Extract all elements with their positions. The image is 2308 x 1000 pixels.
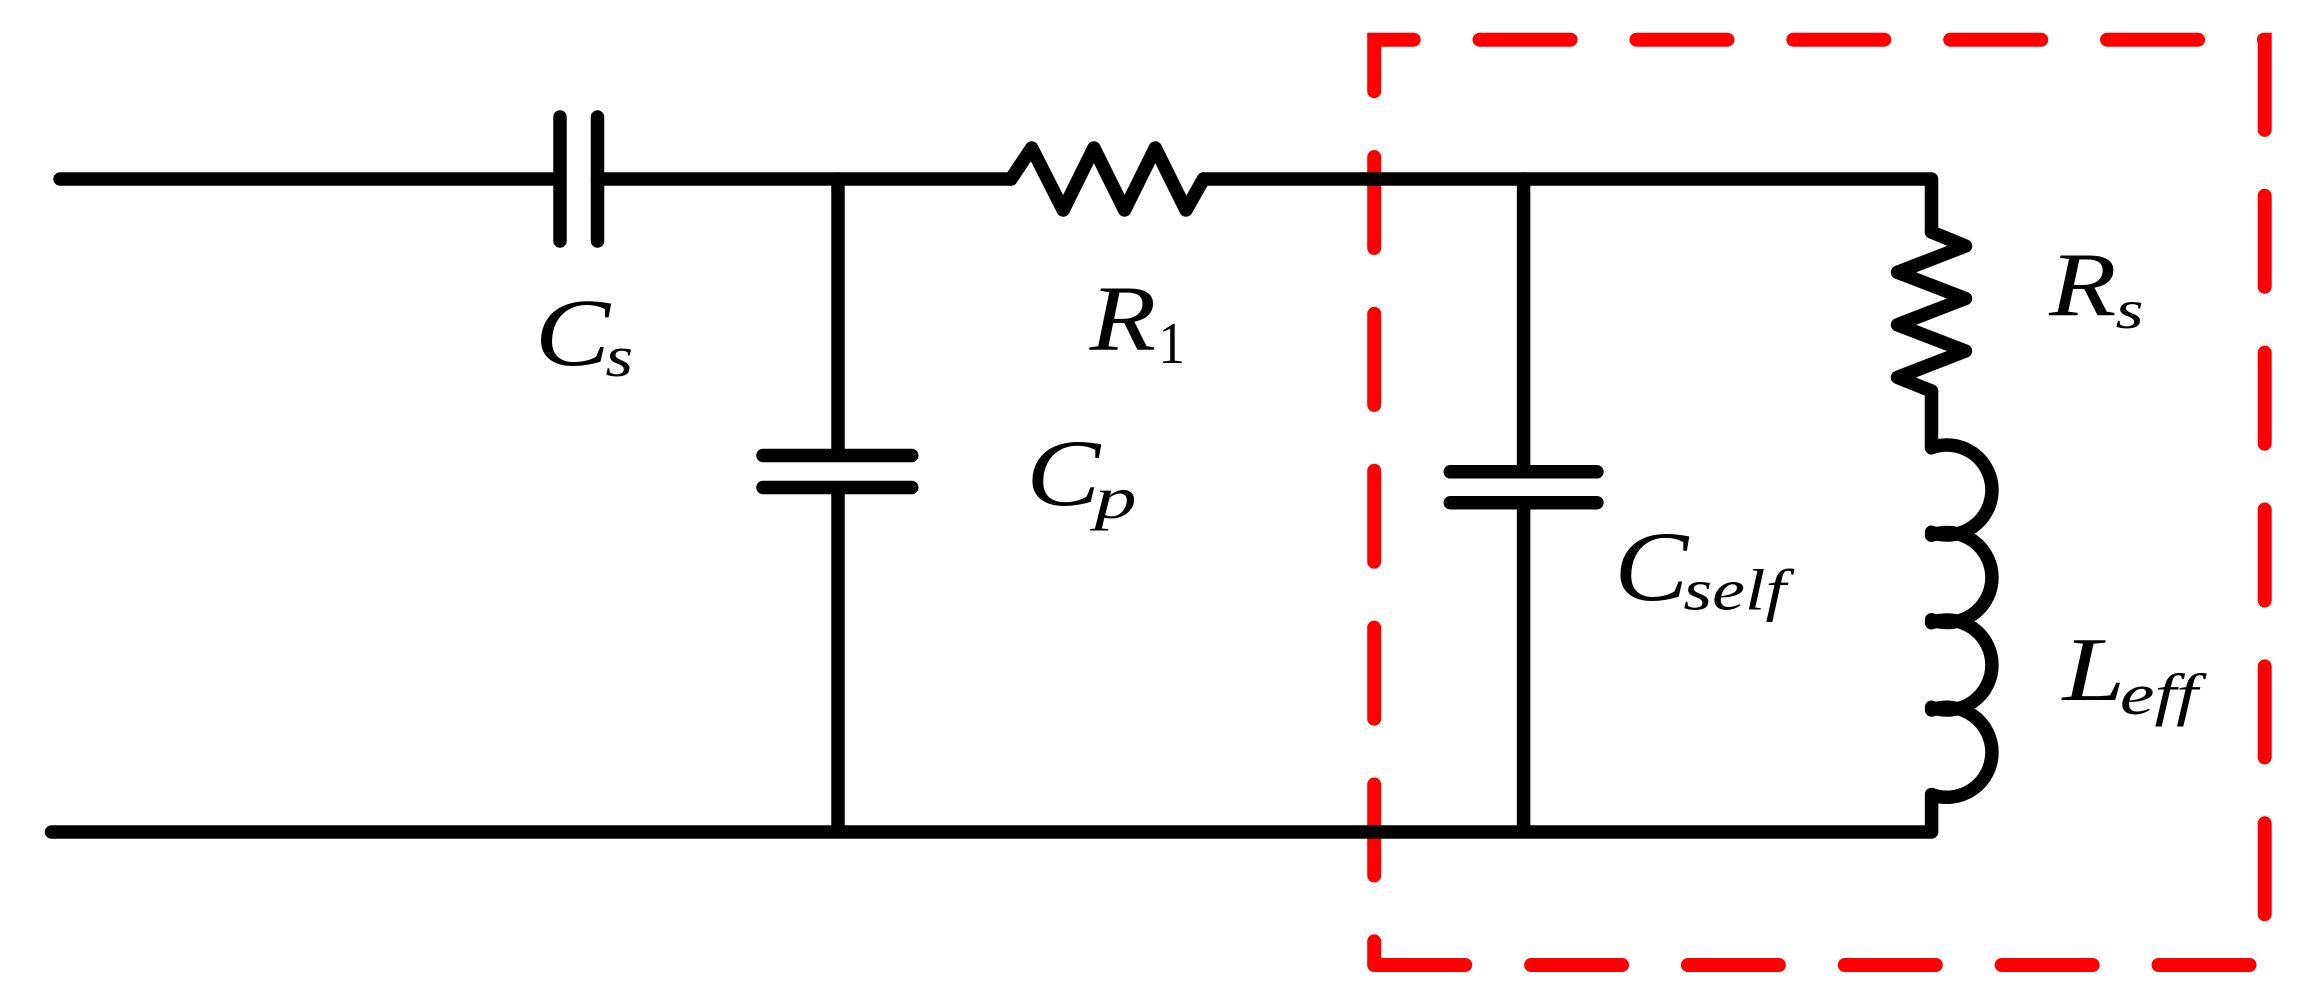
wire: node A branch lower bbox=[831, 491, 845, 832]
wire: Leff to bottom return bbox=[52, 795, 1932, 832]
svg-text:s: s bbox=[2116, 279, 2144, 340]
red dashed boundary box (lumped coil model region) bbox=[1374, 40, 2265, 965]
capacitor Cself bbox=[1450, 472, 1597, 503]
wire: input lead top-left bbox=[60, 172, 557, 186]
svg-text:C: C bbox=[535, 279, 611, 386]
wire: Cs to node A bbox=[598, 172, 839, 186]
capacitor Cp bbox=[763, 456, 912, 488]
svg-text:1: 1 bbox=[1158, 310, 1185, 376]
svg-text:s: s bbox=[605, 324, 633, 389]
svg-text:p: p bbox=[1089, 465, 1137, 531]
resistor R1 bbox=[1011, 148, 1204, 210]
capacitor Cs bbox=[560, 117, 598, 241]
svg-text:self: self bbox=[1683, 557, 1794, 622]
svg-text:L: L bbox=[2060, 618, 2125, 720]
inductor Leff bbox=[1932, 445, 1992, 797]
svg-text:R: R bbox=[2048, 233, 2117, 335]
wire: node B branch upper bbox=[1517, 179, 1531, 468]
wire: Rs to Leff bbox=[1925, 391, 1939, 448]
wire: node B branch lower bbox=[1517, 507, 1531, 833]
wire: R1 to node B bbox=[1204, 172, 1524, 186]
resistor Rs bbox=[1898, 232, 1966, 391]
wire: node A branch upper bbox=[831, 179, 845, 452]
svg-text:C: C bbox=[1614, 511, 1689, 622]
svg-text:C: C bbox=[1026, 420, 1102, 526]
svg-text:eff: eff bbox=[2120, 662, 2207, 727]
svg-text:R: R bbox=[1089, 268, 1157, 371]
wire: node B to Rs (with corner) bbox=[1524, 179, 1932, 232]
wire: node A to R1 bbox=[838, 172, 1011, 186]
